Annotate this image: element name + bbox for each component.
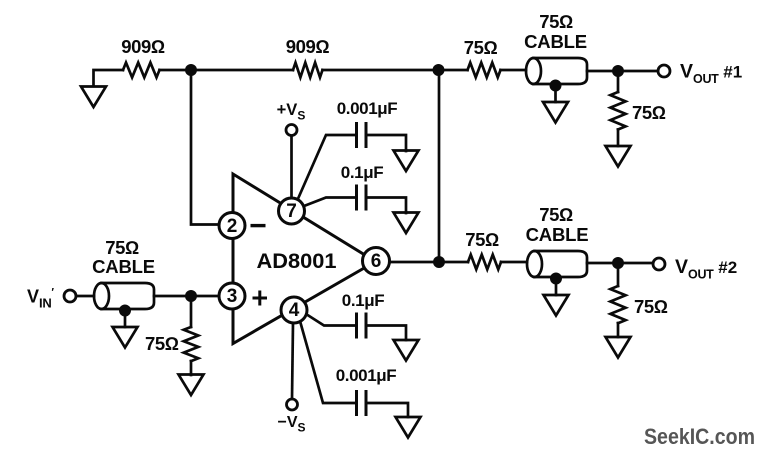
node D junction dot (433, 256, 445, 268)
pin 6 circle (363, 248, 390, 275)
terminal VOUT2 (653, 258, 665, 270)
svg-text:2: 2 (227, 216, 238, 237)
wire: pin 6 to node D (389, 261, 439, 264)
resistor R2 909ohm (feedback) (293, 63, 322, 78)
resistor R7 75ohm (input termination, vertical) (184, 327, 199, 361)
ground (C1) (394, 151, 419, 172)
svg-text:CABLE: CABLE (526, 224, 589, 245)
op-amp U1 AD8001 triangle (233, 174, 376, 344)
wire: node C to VOUT1 terminal (618, 70, 658, 73)
wire: pin 7 to 0.001uF cap lead (diagonal) (297, 135, 356, 201)
svg-text:0.001μF: 0.001μF (337, 99, 398, 118)
ground (C4) (396, 417, 421, 438)
svg-text:0.1μF: 0.1μF (341, 163, 383, 182)
capacitor C1 0.001uF plate right (365, 122, 368, 148)
cable 2 shield junction dot (119, 305, 131, 317)
pin 2 circle (219, 213, 245, 239)
svg-text:75Ω: 75Ω (465, 229, 499, 250)
svg-text:75Ω: 75Ω (539, 204, 573, 225)
ground (C2) (394, 213, 419, 234)
capacitor C4 0.001uF plate left (355, 390, 358, 416)
wire: node E to VOUT2 terminal (618, 262, 654, 265)
svg-text:CABLE: CABLE (92, 256, 155, 277)
node B junction dot (433, 64, 445, 76)
wire: R3 to cable 1 (501, 69, 527, 72)
svg-text:4: 4 (289, 300, 300, 321)
svg-text:CABLE: CABLE (524, 31, 587, 52)
capacitor C4 0.001uF plate right (365, 390, 368, 416)
resistor R4 75ohm (termination #1, vertical) (610, 92, 625, 129)
ground (cable 3 shield) (544, 295, 569, 316)
wire: node B down to output node D (438, 70, 441, 262)
wire: cable 3 shield stem to ground (555, 279, 558, 295)
svg-text:75Ω: 75Ω (464, 37, 498, 58)
svg-text:AD8001: AD8001 (257, 250, 337, 273)
wire: R1 to node A (160, 69, 192, 72)
svg-text:VOUT #2: VOUT #2 (675, 256, 737, 282)
svg-text:75Ω: 75Ω (539, 11, 573, 32)
resistor R1 909ohm (123, 63, 160, 78)
node A junction dot (185, 64, 197, 76)
terminal VIN (64, 290, 76, 302)
wire: C3 to ground (366, 326, 406, 341)
wire: pin 4 to 0.001uF cap lead (diagonal) (300, 321, 356, 403)
wire: pin 4 down to -Vs terminal (292, 323, 293, 399)
wire: cable 1 to node C (587, 70, 618, 73)
svg-text:+VS: +VS (277, 101, 306, 123)
svg-text:−VS: −VS (277, 414, 305, 435)
terminal +Vs (286, 125, 297, 136)
svg-text:7: 7 (286, 201, 297, 222)
svg-text:6: 6 (371, 251, 382, 272)
wire: node D to R5 (439, 261, 468, 264)
wire: R7 to ground (190, 361, 193, 375)
wire: cable 3 to node E (587, 262, 618, 265)
label plus (non-inverting input) (253, 291, 268, 306)
svg-text:75Ω: 75Ω (632, 102, 666, 123)
svg-text:75Ω: 75Ω (634, 296, 668, 317)
pin 3 circle (219, 283, 245, 309)
wire: R4 to ground (617, 130, 620, 147)
cable 3 shield junction dot (550, 273, 562, 285)
svg-text:SeekIC.com: SeekIC.com (644, 424, 755, 449)
wire: cable 2 shield stem to ground (124, 311, 127, 327)
wire: R6 to ground (617, 323, 620, 337)
terminal -Vs (287, 399, 298, 410)
ground (C3) (394, 340, 419, 361)
wire: node A down to pin 2 (feedback tap) (191, 70, 219, 225)
wire: node F to pin 3 (191, 295, 219, 298)
capacitor C2 0.1uF plate right (365, 185, 368, 211)
cable 1 shield junction dot (550, 80, 562, 92)
wire: node E down to R6 (617, 263, 620, 286)
svg-text:0.001μF: 0.001μF (336, 366, 397, 385)
ground (termination #1) (606, 146, 631, 167)
wire: cable 2 to node F (154, 295, 191, 298)
capacitor C2 0.1uF plate left (355, 185, 358, 211)
wire: R5 to cable 3 (501, 261, 527, 264)
wire: pin 7 up to +Vs terminal (290, 136, 293, 199)
cable 3 (75 ohm coax, output #2) (535, 251, 588, 277)
wire: node A to R2 (191, 69, 293, 72)
wire: node B to R3 (438, 69, 468, 72)
svg-text:909Ω: 909Ω (121, 36, 165, 57)
svg-text:0.1μF: 0.1μF (342, 291, 384, 310)
wire: R2 to node B (323, 69, 439, 72)
resistor R3 75ohm (output #1 series) (468, 63, 501, 78)
node C junction dot (612, 65, 624, 77)
svg-text:VOUT #1: VOUT #1 (680, 61, 742, 87)
label minus (inverting input) (251, 224, 266, 227)
capacitor C3 0.1uF plate left (355, 313, 358, 339)
terminal VOUT1 (658, 65, 670, 77)
ground (top-left, feedback network) (81, 87, 106, 108)
pin 4 circle (281, 297, 307, 323)
svg-text:909Ω: 909Ω (286, 36, 330, 57)
resistor R6 75ohm (termination #2, vertical) (610, 286, 625, 323)
capacitor C3 0.1uF plate right (365, 313, 368, 339)
wire: cable 1 shield stem to ground (554, 86, 557, 103)
svg-text:VIN′: VIN′ (27, 287, 54, 311)
capacitor C1 0.001uF plate left (355, 122, 358, 148)
wire: VIN terminal to cable 2 (76, 295, 94, 298)
wire: top rail left segment from ground to R1 (94, 70, 124, 86)
svg-text:75Ω: 75Ω (145, 333, 179, 354)
node F junction dot (185, 290, 197, 302)
wire: node C down to R4 (617, 71, 620, 92)
wire: C2 to ground (366, 198, 406, 214)
wire: pin 4 to 0.1uF cap lead (306, 314, 356, 326)
ground (input termination) (179, 375, 204, 396)
ground (cable 1 shield) (543, 102, 568, 123)
cable 1 (75 ohm coax, output #1) (534, 58, 588, 84)
ground (cable 2 shield) (113, 327, 138, 348)
wire: pin 7 to 0.1uF cap lead (304, 198, 356, 207)
svg-text:75Ω: 75Ω (105, 237, 139, 258)
cable 2 (75 ohm coax, input) (102, 283, 155, 309)
ground (termination #2) (606, 337, 631, 358)
resistor R5 75ohm (output #2 series) (468, 255, 501, 270)
svg-text:3: 3 (227, 286, 238, 307)
wire: C4 to ground (366, 403, 408, 417)
wire: node F down to R7 (190, 296, 193, 327)
wire: C1 to ground (366, 135, 406, 151)
node E junction dot (612, 257, 624, 269)
pin 7 circle (279, 198, 305, 224)
